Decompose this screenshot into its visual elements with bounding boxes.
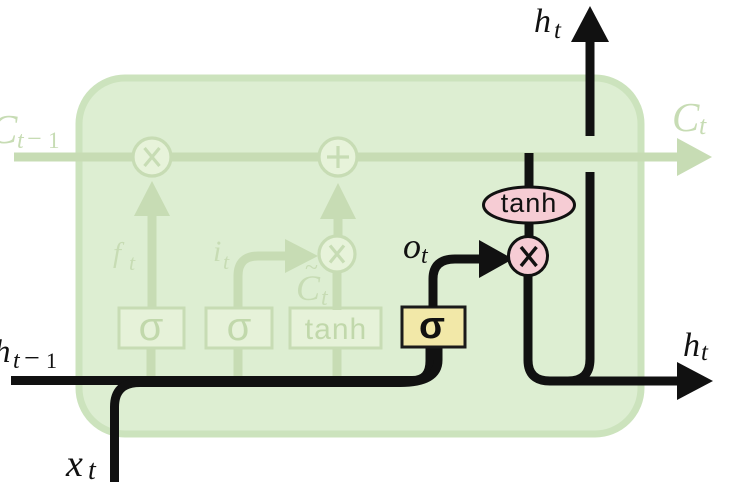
svg-text:t: t (701, 339, 709, 366)
svg-text:tanh: tanh (501, 188, 558, 218)
svg-text:o: o (403, 226, 421, 266)
tanh box lower connector (faded) (333, 348, 342, 376)
svg-text:h: h (683, 327, 700, 364)
cell state line C (faded) (14, 153, 679, 162)
svg-text:x: x (65, 443, 83, 485)
svg-text:tanh: tanh (305, 313, 367, 346)
svg-text:1: 1 (48, 128, 60, 153)
svg-text:h: h (0, 334, 11, 370)
svg-text:−: − (27, 124, 42, 153)
wire tanh oval to multiply (525, 223, 534, 237)
h_t branch wire up (above cell state line) (586, 41, 595, 136)
svg-text:i: i (213, 235, 221, 268)
svg-text:1: 1 (46, 348, 57, 373)
output gate sigma box (yellow) (402, 307, 465, 347)
svg-text:h: h (534, 3, 551, 40)
top h_t arrowhead (571, 6, 609, 42)
svg-text:σ: σ (419, 305, 445, 347)
svg-text:C: C (672, 94, 700, 140)
svg-text:t: t (129, 250, 136, 275)
svg-text:C: C (296, 268, 321, 308)
svg-text:t: t (223, 249, 230, 274)
wire sigma to multiply with arrowhead (433, 259, 480, 307)
svg-text:σ: σ (139, 305, 164, 349)
add node (faded) (319, 138, 357, 176)
output multiply node (pink) (509, 237, 548, 276)
svg-text:t: t (699, 111, 707, 140)
svg-text:−: − (24, 343, 40, 374)
arrow from multiply to add node (faded) (334, 219, 343, 236)
sigma box 2 lower connector (faded) (234, 348, 243, 378)
wire h_{t-1} into output gate (11, 347, 430, 381)
forget-gate multiply node (faded) (133, 138, 171, 176)
tanh box upper connector (faded) (333, 272, 342, 310)
sigma box 1 lower connector (faded) (147, 348, 156, 376)
h_t branch wire up with fillet (below cell state line) (568, 172, 590, 381)
input-gate multiply node (faded) (319, 236, 355, 272)
svg-text:t: t (554, 17, 562, 44)
wire C line down to tanh oval (525, 153, 534, 190)
svg-text:C: C (0, 106, 18, 152)
LSTM cell body (79, 78, 641, 434)
output wire from multiply to right (528, 276, 679, 381)
svg-text:σ: σ (227, 305, 252, 349)
input-gate curve with arrowhead (faded) (238, 256, 286, 310)
right h_t arrowhead (677, 362, 713, 400)
cell state output arrowhead (faded) (677, 138, 712, 176)
svg-text:t: t (13, 348, 21, 374)
wire x_t joining h wire (115, 347, 439, 482)
tanh oval (pink) (484, 187, 575, 223)
svg-text:t: t (88, 455, 97, 486)
forget-gate arrow up (faded) (148, 215, 157, 310)
svg-text:t: t (17, 128, 25, 154)
sigma box 2 (faded) (206, 308, 272, 348)
tanh box (faded) (290, 308, 381, 348)
sigma box 1 (faded) (119, 308, 184, 348)
